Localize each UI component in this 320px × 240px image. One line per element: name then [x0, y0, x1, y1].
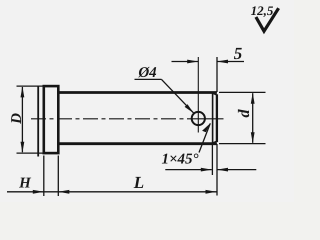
svg-text:d: d [236, 109, 253, 118]
L dimension line [44, 191, 217, 193]
svg-text:1×45°: 1×45° [161, 152, 198, 168]
arrowhead D bottom [21, 142, 25, 153]
d top extension line [219, 91, 266, 93]
svg-text:12,5: 12,5 [251, 3, 274, 18]
arrowhead d top (pointing up) [251, 93, 255, 104]
O4 leader diagonal [162, 79, 194, 113]
body bottom edge [58, 142, 217, 145]
arrowhead H right / L left (tip at head right face, pointing left) [58, 190, 69, 194]
arrowhead 1x45 dim left (pointing right) [201, 168, 212, 172]
d bottom extension line [219, 143, 266, 145]
H left extension line [43, 156, 45, 197]
H right / L left extension line [57, 156, 59, 197]
H dimension line tail left [7, 191, 44, 193]
svg-text:5: 5 [234, 44, 243, 63]
arrowhead D top [21, 86, 25, 97]
arrowhead 1x45 dim right (pointing left) [217, 168, 228, 172]
svg-text:H: H [18, 176, 32, 192]
arrowhead 5 right (pointing left) [217, 60, 228, 64]
arrowhead 1x45 leader (pointing up-right) [202, 123, 210, 132]
arrowhead L right (pointing right) [206, 190, 217, 194]
arrowhead d bottom (pointing down) [251, 132, 255, 143]
arrowhead H left (tip at head left face, pointing right) [33, 190, 44, 194]
svg-text:D: D [9, 113, 25, 125]
D top extension line [17, 85, 44, 87]
5 dimension line left tail [172, 61, 199, 63]
5 dimension line right tail [217, 61, 244, 63]
centerline (pin axis) [31, 118, 188, 120]
svg-text:L: L [133, 173, 144, 192]
arrowhead 5 left (pointing right) [187, 60, 198, 64]
1x45 leader line [199, 123, 210, 152]
O4 leader shelf [135, 78, 162, 80]
hole vertical centerline / ext line of 5 dim [197, 57, 199, 133]
chamfer corner diagonal bottom [213, 141, 217, 143]
D dimension line [21, 87, 23, 152]
thin vertical line left of head [37, 86, 39, 157]
pin end extension line (bottom, for L) [216, 144, 218, 196]
chamfer extension line (for 1x45) [211, 145, 213, 176]
pin head outline [44, 86, 59, 153]
hole circle O4 [192, 112, 205, 125]
chamfer line [212, 93, 214, 143]
d dimension line [252, 93, 254, 143]
svg-text:Ø4: Ø4 [137, 65, 157, 81]
pin end extension line (top, for 5) [216, 57, 218, 92]
1x45 dimension line left tail [165, 169, 212, 171]
D bottom extension line [17, 152, 46, 154]
end face line [216, 94, 218, 142]
arrowhead O4 leader (pointing down-right at circle) [185, 104, 194, 113]
roughness check mark [256, 8, 279, 31]
chamfer corner diagonal top [213, 93, 217, 95]
1x45 dimension line right tail [217, 169, 256, 171]
body top edge [58, 91, 217, 94]
